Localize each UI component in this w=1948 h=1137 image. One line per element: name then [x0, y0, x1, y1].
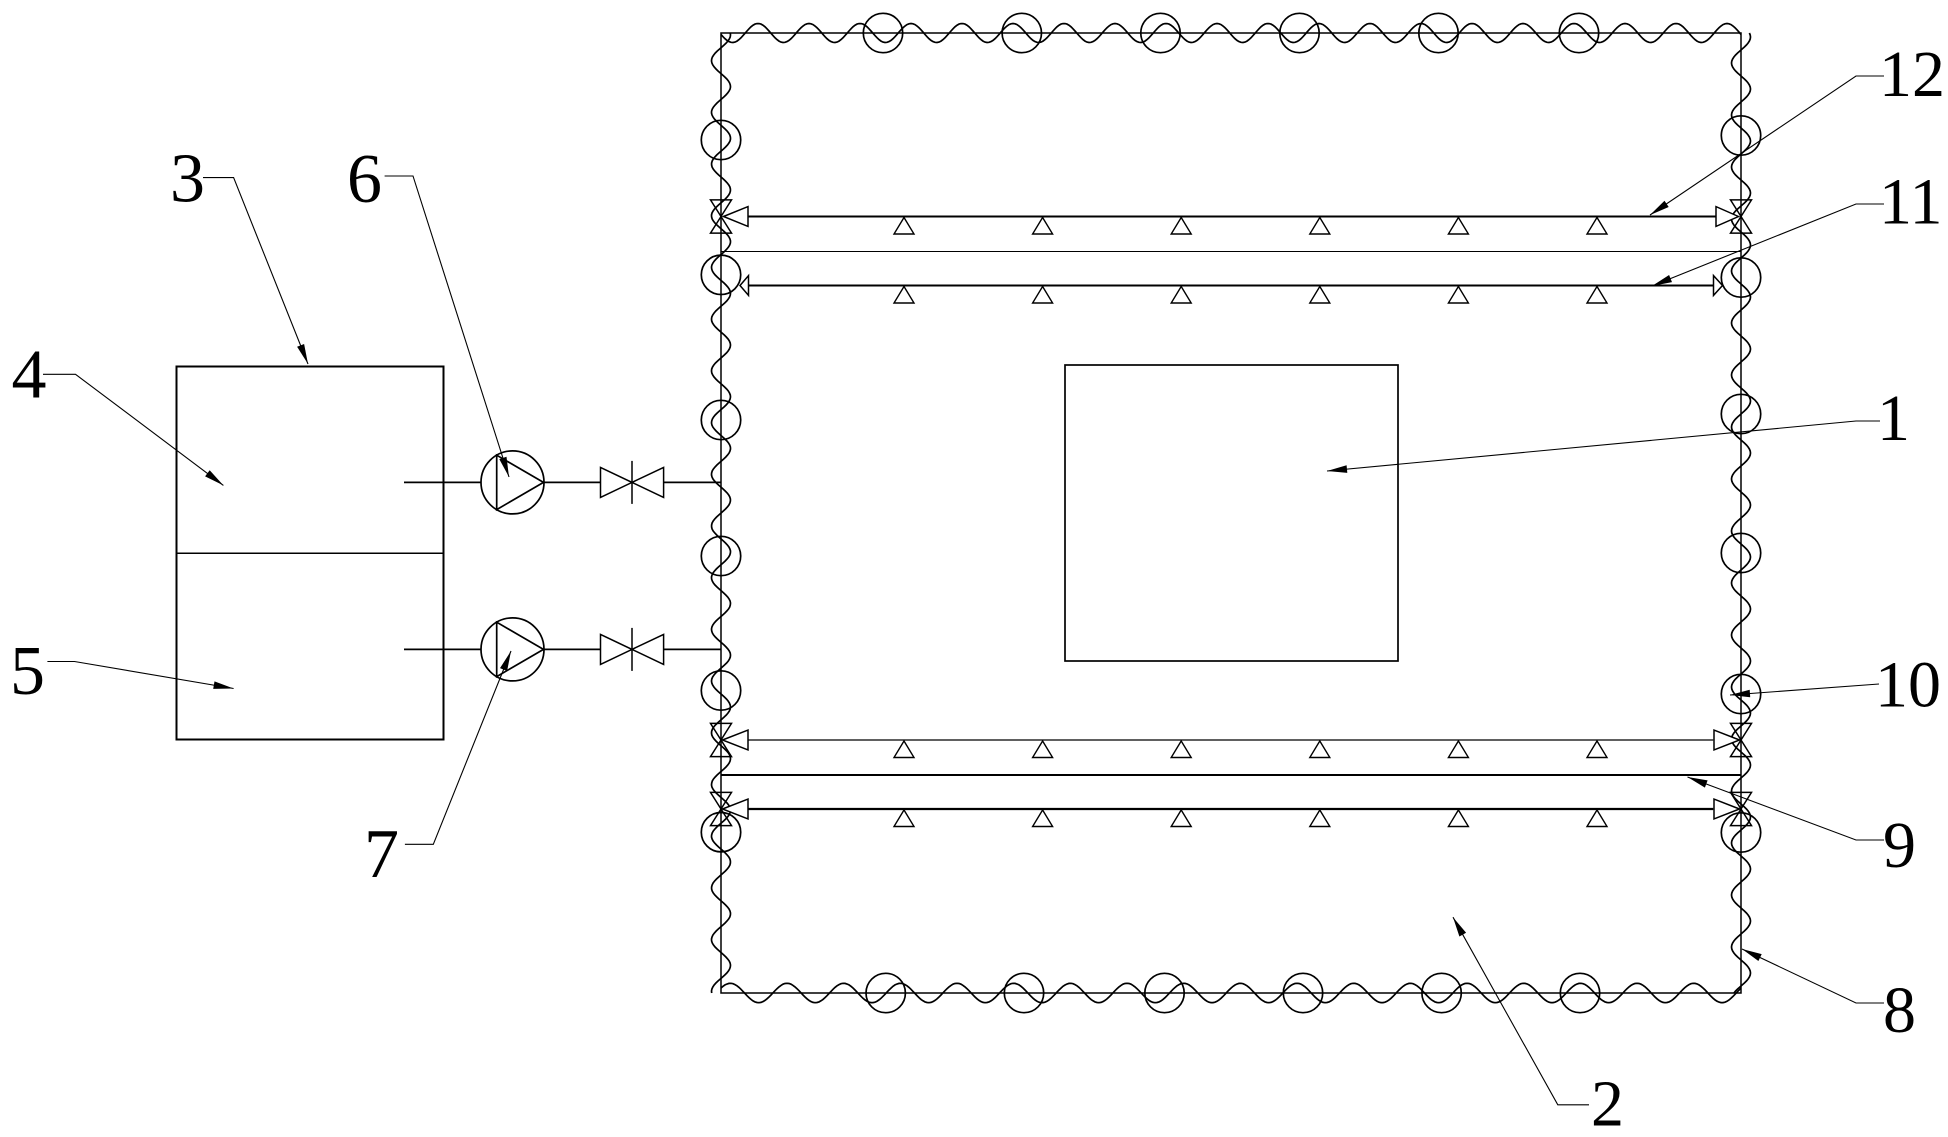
leader 8 [1742, 949, 1884, 1003]
svg-text:6: 6 [347, 141, 382, 218]
leader 6 [385, 176, 509, 477]
svg-text:11: 11 [1879, 166, 1943, 239]
fence post circles top edge [863, 13, 1598, 52]
svg-text:10: 10 [1875, 649, 1941, 722]
pump 6 [404, 451, 601, 514]
leader 3 [203, 178, 308, 364]
leader 2 [1453, 917, 1589, 1105]
label 3 [170, 141, 205, 218]
svg-text:4: 4 [12, 337, 47, 414]
junction bowtie left pipe upper-bottom [711, 723, 732, 756]
fence post circles bottom edge [866, 973, 1600, 1012]
junction bowtie right pipe upper-bottom [1731, 723, 1752, 756]
valve after pump 6 [601, 461, 722, 504]
junction bowtie left pipe lower-bottom [711, 792, 732, 825]
leader 9 [1688, 777, 1885, 840]
fence post circles right edge 10 [1721, 116, 1760, 852]
pump 7 [404, 618, 601, 681]
wavy fence bottom edge [721, 983, 1741, 1002]
wavy fence left edge [712, 33, 731, 993]
svg-text:12: 12 [1879, 38, 1945, 111]
svg-text:1: 1 [1877, 382, 1910, 455]
lower bottom spray pipe [723, 799, 1740, 826]
label 4 [12, 337, 47, 414]
leader 4 [43, 374, 223, 485]
leader 1 [1327, 421, 1880, 473]
thin supply line below pipe 12 [721, 251, 1741, 253]
pipe 11 spray line [740, 276, 1723, 303]
label 5 [10, 633, 45, 710]
label 8 [1883, 974, 1916, 1047]
leader 7 [405, 651, 511, 844]
leader 10 [1730, 684, 1879, 697]
building rectangle 1 [1065, 365, 1398, 661]
label 12 [1879, 38, 1945, 111]
junction bowtie right pipe 12 [1731, 200, 1752, 233]
upper bottom spray pipe [723, 730, 1740, 757]
label 10 [1875, 649, 1941, 722]
tank 3 outline [177, 367, 444, 740]
label 1 [1877, 382, 1910, 455]
label 11 [1879, 166, 1943, 239]
label 7 [364, 816, 399, 893]
svg-text:8: 8 [1883, 974, 1916, 1047]
pipe 12 spray line [724, 207, 1739, 234]
svg-text:3: 3 [170, 141, 205, 218]
svg-text:7: 7 [364, 816, 399, 893]
wavy fence right edge 8 [1732, 33, 1751, 993]
junction bowtie left pipe 12 [711, 200, 732, 233]
field boundary rectangle 2 [721, 33, 1741, 993]
leader 12 [1650, 76, 1884, 215]
leader 5 [47, 662, 233, 689]
svg-text:2: 2 [1591, 1068, 1624, 1137]
label 6 [347, 141, 382, 218]
junction bowtie right pipe lower-bottom [1731, 792, 1752, 825]
label 2 [1591, 1068, 1624, 1137]
fence post circles left edge [701, 120, 740, 852]
label 9 [1883, 809, 1916, 882]
svg-text:9: 9 [1883, 809, 1916, 882]
wavy fence top edge [721, 24, 1741, 43]
tank divider between compartments 4 and 5 [177, 552, 444, 554]
middle supply line 9 [721, 774, 1741, 776]
svg-text:5: 5 [10, 633, 45, 710]
valve after pump 7 [601, 628, 722, 671]
leader 11 [1652, 204, 1884, 286]
